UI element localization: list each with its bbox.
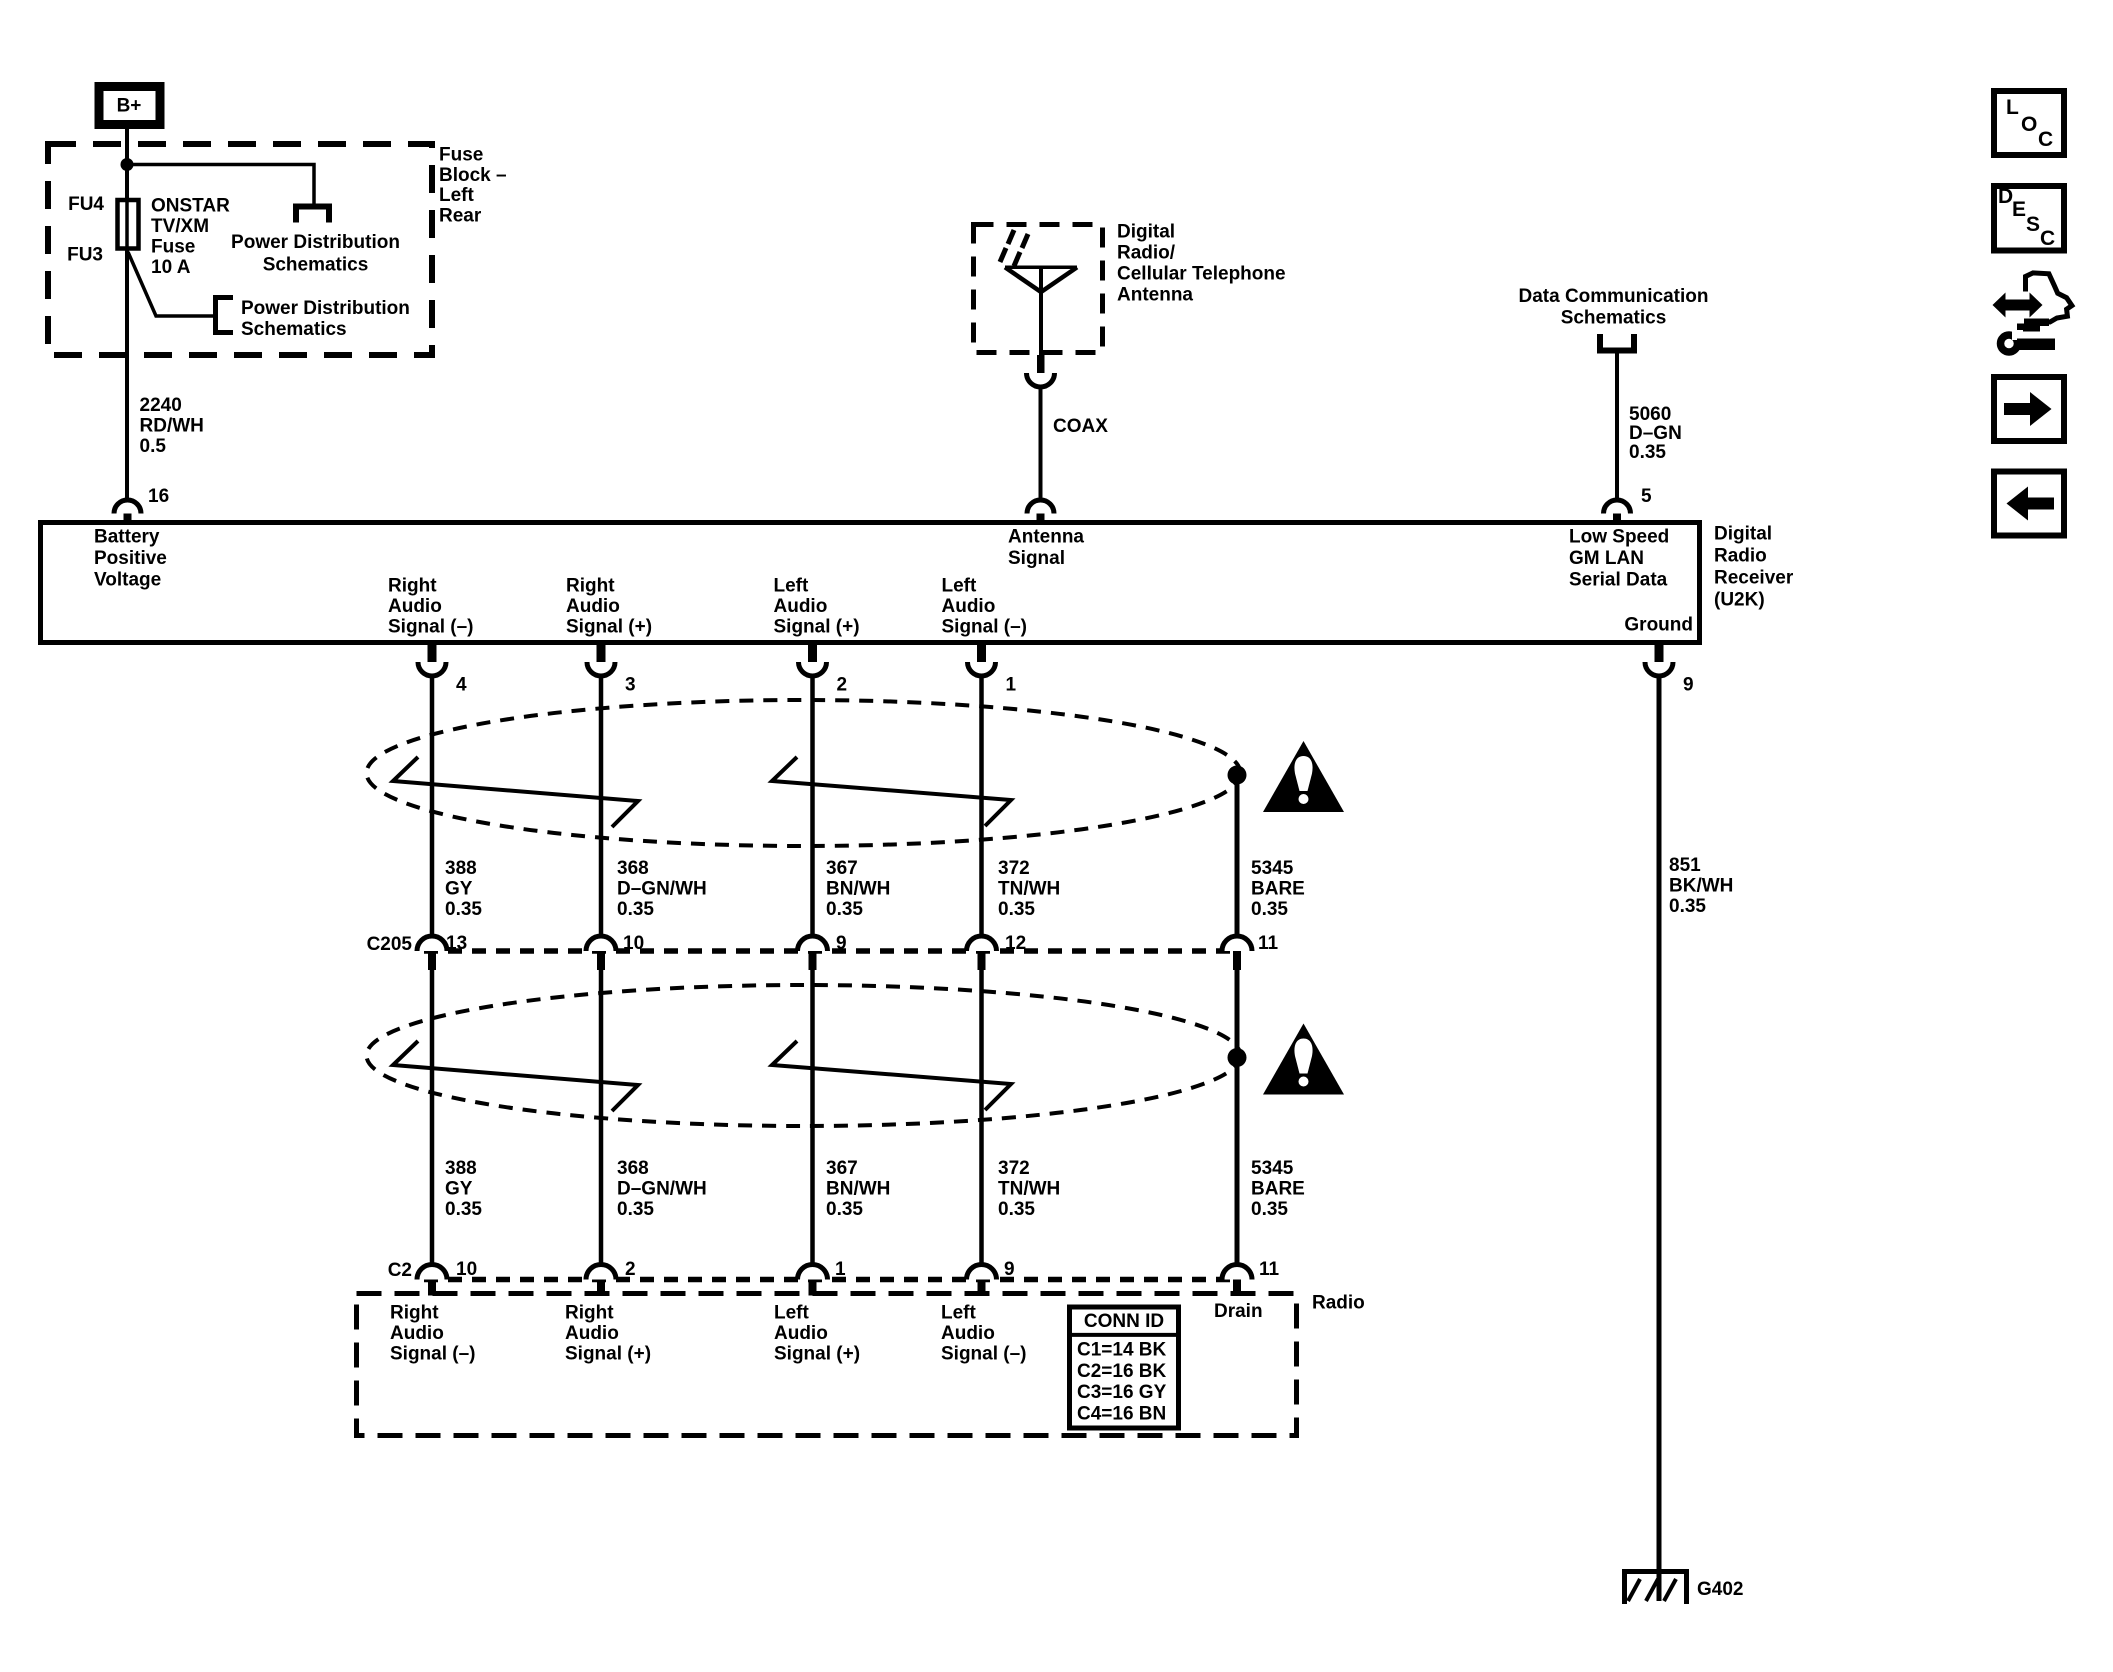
svg-text:372: 372 [998, 1158, 1030, 1179]
C205 cavity number 12 [1005, 933, 1026, 954]
twisted pair arrow (lower right) [772, 1041, 1011, 1110]
svg-text:TN/WH: TN/WH [998, 1179, 1060, 1200]
twisted pair arrow (lower left) [393, 1041, 638, 1111]
wire value label: 367 BN/WH 0.35 (lower) [826, 1158, 890, 1220]
C205 cavity 12 connector [967, 936, 997, 970]
svg-text:5345: 5345 [1251, 1158, 1294, 1179]
svg-text:C2: C2 [388, 1260, 412, 1281]
connector C2 dashed line [424, 1277, 1237, 1283]
svg-text:16: 16 [148, 486, 169, 507]
wire 851 BK/WH 0.35 (ground run) [1657, 676, 1662, 1601]
CONN ID table [1070, 1307, 1179, 1428]
svg-text:Drain: Drain [1214, 1301, 1263, 1322]
svg-text:0.35: 0.35 [1669, 896, 1706, 917]
pin number 16 [148, 486, 169, 507]
svg-text:5: 5 [1641, 486, 1652, 507]
svg-text:2240: 2240 [140, 395, 182, 416]
svg-text:368: 368 [617, 858, 649, 879]
svg-text:Left: Left [941, 1303, 977, 1324]
twisted pair arrow (upper left) [393, 757, 638, 827]
pin 1 connector (audio) [968, 643, 996, 676]
svg-text:Schematics: Schematics [263, 255, 369, 276]
svg-text:D–GN: D–GN [1629, 423, 1682, 444]
svg-text:Digital: Digital [1714, 524, 1772, 545]
svg-text:1: 1 [1006, 675, 1017, 696]
svg-text:0.35: 0.35 [445, 1199, 482, 1220]
svg-text:Signal (–): Signal (–) [941, 1344, 1027, 1365]
svg-text:851: 851 [1669, 855, 1701, 876]
svg-text:Audio: Audio [941, 1323, 995, 1344]
svg-text:9: 9 [1683, 675, 1694, 696]
label: Battery Positive Voltage [94, 527, 167, 591]
svg-text:Audio: Audio [942, 596, 996, 617]
svg-text:FU4: FU4 [68, 194, 104, 215]
svg-text:0.35: 0.35 [998, 1199, 1035, 1220]
antenna radiation marks [1000, 230, 1028, 266]
svg-text:Radio: Radio [1714, 546, 1767, 567]
svg-text:Fuse: Fuse [439, 145, 483, 166]
svg-text:Signal (+): Signal (+) [774, 617, 860, 638]
wire value label: 851 BK/WH 0.35 [1669, 855, 1733, 917]
label: Radio Right Audio Signal (-) [390, 1303, 476, 1365]
wire: fuse to power distribution (lower branch) [128, 252, 216, 316]
wire value label: 5345 BARE 0.35 (upper) [1251, 858, 1305, 920]
svg-text:Schematics: Schematics [1561, 308, 1667, 329]
svg-text:0.35: 0.35 [826, 899, 863, 920]
svg-text:3: 3 [625, 675, 636, 696]
C2 cavity 2 connector [586, 1265, 616, 1296]
svg-text:Radio: Radio [1312, 1293, 1365, 1314]
antenna enclosure (dashed) [974, 225, 1103, 353]
pin label FU3 [67, 245, 103, 266]
wire: COAX antenna lead [1039, 387, 1043, 501]
wire value label: 368 D–GN/WH 0.35 (upper) [617, 858, 707, 920]
svg-text:0.35: 0.35 [1251, 1199, 1288, 1220]
C2 cavity number 10 [456, 1259, 477, 1280]
svg-text:D–GN/WH: D–GN/WH [617, 879, 707, 900]
svg-text:Audio: Audio [774, 1323, 828, 1344]
connector bracket: to Power Distribution Schematics (lower) [216, 298, 234, 333]
svg-text:S: S [2026, 213, 2040, 236]
svg-text:Power Distribution: Power Distribution [231, 232, 400, 253]
pin number 9 [1683, 675, 1694, 696]
svg-text:Signal (+): Signal (+) [566, 617, 652, 638]
C2 cavity 10 connector [417, 1265, 447, 1296]
value label: ONSTAR TV/XM Fuse 10 A [151, 196, 230, 279]
svg-text:0.35: 0.35 [998, 899, 1035, 920]
svg-text:Left: Left [774, 1303, 810, 1324]
wire value label: 372 TN/WH 0.35 (upper) [998, 858, 1060, 920]
wire 372 TN/WH (left audio -) middle segment [979, 970, 984, 1266]
svg-text:Schematics: Schematics [241, 319, 347, 340]
antenna signal pin connector [1027, 500, 1054, 524]
svg-text:Serial Data: Serial Data [1569, 570, 1668, 591]
svg-text:Voltage: Voltage [94, 570, 161, 591]
C2 cavity number 11 [1259, 1259, 1280, 1280]
svg-text:2: 2 [837, 675, 848, 696]
drain wire 5345 BARE middle segment [1235, 970, 1240, 1266]
ground G402 symbol [1622, 1569, 1689, 1604]
svg-text:10: 10 [456, 1259, 477, 1280]
svg-text:2: 2 [625, 1259, 636, 1280]
inline coax connector [1027, 355, 1055, 387]
svg-text:BN/WH: BN/WH [826, 1179, 890, 1200]
svg-text:0.35: 0.35 [1251, 899, 1288, 920]
svg-text:COAX: COAX [1053, 416, 1108, 437]
svg-text:388: 388 [445, 858, 477, 879]
label: Radio Left Audio Signal (-) [941, 1303, 1027, 1365]
svg-text:9: 9 [836, 933, 847, 954]
C2 cavity number 9 [1004, 1259, 1015, 1280]
label: Fuse Block - Left Rear [439, 145, 507, 227]
svg-text:Right: Right [566, 576, 615, 597]
shield drain junction node (lower) [1228, 1048, 1247, 1067]
pin number 2 [837, 675, 848, 696]
wire value label: 367 BN/WH 0.35 (upper) [826, 858, 890, 920]
svg-text:Fuse: Fuse [151, 237, 195, 258]
svg-text:Signal (–): Signal (–) [390, 1344, 476, 1365]
svg-text:TV/XM: TV/XM [151, 216, 209, 237]
svg-text:Receiver: Receiver [1714, 568, 1794, 589]
connector label C205 [367, 934, 413, 955]
svg-text:Signal (–): Signal (–) [388, 617, 474, 638]
shield drain junction node (upper) [1228, 766, 1247, 785]
wire value label: COAX [1053, 416, 1108, 437]
svg-text:372: 372 [998, 858, 1030, 879]
pin number 4 [456, 675, 467, 696]
wire 368 D-GN/WH (right audio +) upper segment [599, 676, 604, 938]
connector label C2 [388, 1260, 412, 1281]
svg-text:0.5: 0.5 [140, 436, 167, 457]
icon: schematic navigation (arrows and wrench) [1993, 273, 2072, 352]
pin 16 connector (Digital Radio Receiver) [114, 500, 141, 524]
Radio enclosure (dashed) [357, 1294, 1297, 1436]
svg-text:Right: Right [388, 576, 437, 597]
label: Power Distribution Schematics (lower) [241, 298, 410, 340]
connector fork: to Power Distribution Schematics (upper) [296, 207, 329, 223]
ground label G402 [1697, 1579, 1743, 1600]
label: Low Speed GM LAN Serial Data [1569, 527, 1669, 591]
svg-text:Audio: Audio [565, 1323, 619, 1344]
svg-text:Antenna: Antenna [1117, 285, 1193, 306]
label: Power Distribution Schematics (upper) [231, 232, 400, 275]
wire 367 BN/WH (left audio +) upper segment [810, 676, 815, 938]
junction node at B+ feed [121, 158, 134, 171]
C2 cavity 9 connector [967, 1265, 997, 1296]
wire value label: 5060 D-GN 0.35 [1629, 404, 1682, 463]
pin number 3 [625, 675, 636, 696]
svg-text:Left: Left [439, 185, 475, 206]
svg-text:Audio: Audio [390, 1323, 444, 1344]
label: Radio [1312, 1293, 1365, 1314]
svg-text:1: 1 [835, 1259, 846, 1280]
svg-text:ONSTAR: ONSTAR [151, 196, 230, 217]
svg-text:4: 4 [456, 675, 467, 696]
pin 4 connector (audio) [418, 643, 446, 676]
C205 cavity number 11 [1258, 933, 1279, 954]
svg-text:D–GN/WH: D–GN/WH [617, 1179, 707, 1200]
icon: next page (right arrow) box [1994, 377, 2064, 441]
wire value label: 388 GY 0.35 (upper) [445, 858, 482, 920]
svg-text:TN/WH: TN/WH [998, 879, 1060, 900]
svg-text:BK/WH: BK/WH [1669, 875, 1733, 896]
label: Right Audio Signal (+) pin name [566, 576, 652, 638]
svg-text:13: 13 [446, 933, 467, 954]
svg-text:11: 11 [1259, 1259, 1280, 1280]
C205 cavity 11 connector [1222, 936, 1252, 970]
C205 cavity number 10 [623, 933, 644, 954]
icon: LOC box [1994, 91, 2064, 155]
svg-text:Audio: Audio [388, 596, 442, 617]
C2 cavity number 1 [835, 1259, 846, 1280]
svg-text:C2=16 BK: C2=16 BK [1077, 1361, 1167, 1382]
svg-text:GY: GY [445, 1179, 473, 1200]
label: Left Audio Signal (+) pin name [774, 576, 860, 638]
wire 367 BN/WH (left audio +) middle segment [810, 970, 815, 1266]
C2 cavity number 2 [625, 1259, 636, 1280]
antenna symbol [1005, 267, 1077, 357]
wire value label: 372 TN/WH 0.35 (lower) [998, 1158, 1060, 1220]
svg-text:E: E [2012, 198, 2026, 221]
label: Ground [1624, 615, 1693, 636]
C2 cavity 1 connector [798, 1265, 828, 1296]
svg-text:C205: C205 [367, 934, 413, 955]
icon: DESC box [1994, 185, 2064, 251]
label: Digital Radio/ Cellular Telephone Antenna [1117, 222, 1286, 306]
wire value label: 2240 RD/WH 0.5 [140, 395, 204, 457]
wire 388 GY (right audio -) middle segment [430, 970, 435, 1266]
svg-text:C: C [2038, 128, 2053, 151]
connector C205 dashed line [424, 948, 1237, 954]
fuse block - left rear enclosure (dashed) [48, 144, 432, 355]
wire 388 GY (right audio -) upper segment [430, 676, 435, 938]
svg-text:FU3: FU3 [67, 245, 103, 266]
svg-text:Signal (+): Signal (+) [565, 1344, 651, 1365]
svg-text:Right: Right [565, 1303, 614, 1324]
svg-text:5345: 5345 [1251, 858, 1294, 879]
svg-text:10 A: 10 A [151, 257, 191, 278]
label: Data Communication Schematics [1518, 286, 1708, 329]
svg-text:Audio: Audio [774, 596, 828, 617]
svg-text:Data Communication: Data Communication [1518, 286, 1708, 307]
svg-text:Left: Left [774, 576, 810, 597]
svg-text:Cellular Telephone: Cellular Telephone [1117, 264, 1286, 285]
battery feed terminal B+ [99, 87, 160, 125]
label: Radio Left Audio Signal (+) [774, 1303, 860, 1365]
icon: previous page (left arrow) box [1994, 472, 2064, 536]
svg-text:RD/WH: RD/WH [140, 416, 204, 437]
svg-text:12: 12 [1005, 933, 1026, 954]
svg-text:Left: Left [942, 576, 978, 597]
warning triangle (upper) [1263, 741, 1344, 812]
connector fork: to Data Communication Schematics [1600, 334, 1634, 351]
pin number 1 [1006, 675, 1017, 696]
svg-text:CONN ID: CONN ID [1084, 1311, 1164, 1332]
wire 5060 D-GN 0.35 (GM LAN) [1615, 351, 1619, 502]
svg-text:Audio: Audio [566, 596, 620, 617]
svg-text:C3=16 GY: C3=16 GY [1077, 1382, 1167, 1403]
svg-text:G402: G402 [1697, 1579, 1743, 1600]
svg-text:0.35: 0.35 [617, 899, 654, 920]
svg-text:BN/WH: BN/WH [826, 879, 890, 900]
label: Drain [1214, 1301, 1263, 1322]
svg-text:0.35: 0.35 [617, 1199, 654, 1220]
svg-text:O: O [2021, 113, 2037, 136]
wire 2240 RD/WH 0.5 (battery feed) [125, 250, 129, 501]
svg-text:Signal: Signal [1008, 548, 1065, 569]
wire: branch to power distribution fork [127, 165, 314, 206]
svg-text:367: 367 [826, 858, 858, 879]
svg-text:Ground: Ground [1624, 615, 1693, 636]
svg-text:Positive: Positive [94, 548, 167, 569]
Digital Radio Receiver (U2K) block [41, 523, 1700, 643]
C205 cavity 9 connector [798, 936, 828, 970]
twisted pair arrow (upper right) [772, 757, 1011, 826]
pin 9 connector (ground) [1645, 643, 1673, 676]
C205 cavity 10 connector [586, 936, 616, 970]
wire value label: 368 D–GN/WH 0.35 (lower) [617, 1158, 707, 1220]
svg-text:C4=16 BN: C4=16 BN [1077, 1403, 1166, 1424]
shielded twisted pair ellipse (lower) [367, 985, 1241, 1126]
C205 cavity number 9 [836, 933, 847, 954]
wire value label: 5345 BARE 0.35 (lower) [1251, 1158, 1305, 1220]
pin 5 connector [1604, 500, 1631, 524]
pin 2 connector (audio) [799, 643, 827, 676]
svg-text:C: C [2040, 227, 2055, 250]
svg-text:5060: 5060 [1629, 404, 1671, 425]
svg-text:0.35: 0.35 [826, 1199, 863, 1220]
svg-text:Antenna: Antenna [1008, 527, 1084, 548]
svg-text:Signal (+): Signal (+) [774, 1344, 860, 1365]
svg-text:Low Speed: Low Speed [1569, 527, 1669, 548]
shielded twisted pair ellipse (upper) [367, 700, 1241, 846]
C205 cavity number 13 [446, 933, 467, 954]
svg-text:Battery: Battery [94, 527, 160, 548]
svg-text:11: 11 [1258, 933, 1279, 954]
label: Left Audio Signal (-) pin name [942, 576, 1028, 638]
svg-text:GM LAN: GM LAN [1569, 548, 1644, 569]
svg-text:0.35: 0.35 [1629, 442, 1666, 463]
svg-text:B+: B+ [117, 96, 142, 117]
svg-text:0.35: 0.35 [445, 899, 482, 920]
wire 372 TN/WH (left audio -) upper segment [979, 676, 984, 938]
svg-text:(U2K): (U2K) [1714, 590, 1765, 611]
svg-text:D: D [1998, 185, 2013, 208]
svg-text:Block –: Block – [439, 165, 507, 186]
svg-text:BARE: BARE [1251, 1179, 1305, 1200]
C205 cavity 13 connector [417, 936, 447, 970]
label: Digital Radio Receiver (U2K) [1714, 524, 1794, 611]
svg-text:BARE: BARE [1251, 879, 1305, 900]
pin label FU4 [68, 194, 104, 215]
drain wire 5345 BARE upper segment [1235, 775, 1240, 938]
C2 cavity 11 connector [1222, 1265, 1252, 1296]
svg-text:L: L [2006, 96, 2019, 119]
svg-text:Rear: Rear [439, 205, 482, 226]
label: Right Audio Signal (-) pin name [388, 576, 474, 638]
fuse FU4/FU3 ONSTAR TV/XM Fuse 10 A [118, 200, 139, 252]
svg-text:Power Distribution: Power Distribution [241, 298, 410, 319]
wire: B+ feed down to fuse FU4 [125, 125, 129, 200]
label: Radio Right Audio Signal (+) [565, 1303, 651, 1365]
svg-text:388: 388 [445, 1158, 477, 1179]
svg-text:Radio/: Radio/ [1117, 243, 1176, 264]
wire value label: 388 GY 0.35 (lower) [445, 1158, 482, 1220]
svg-text:Signal (–): Signal (–) [942, 617, 1028, 638]
svg-text:GY: GY [445, 879, 473, 900]
svg-text:10: 10 [623, 933, 644, 954]
pin 3 connector (audio) [587, 643, 615, 676]
svg-text:C1=14 BK: C1=14 BK [1077, 1340, 1167, 1361]
svg-text:368: 368 [617, 1158, 649, 1179]
svg-text:367: 367 [826, 1158, 858, 1179]
pin number 5 [1641, 486, 1652, 507]
label: Antenna Signal [1008, 527, 1084, 570]
warning triangle (lower) [1263, 1024, 1344, 1095]
wire 368 D-GN/WH (right audio +) middle segment [599, 970, 604, 1266]
svg-text:Digital: Digital [1117, 222, 1175, 243]
svg-text:9: 9 [1004, 1259, 1015, 1280]
svg-text:Right: Right [390, 1303, 439, 1324]
